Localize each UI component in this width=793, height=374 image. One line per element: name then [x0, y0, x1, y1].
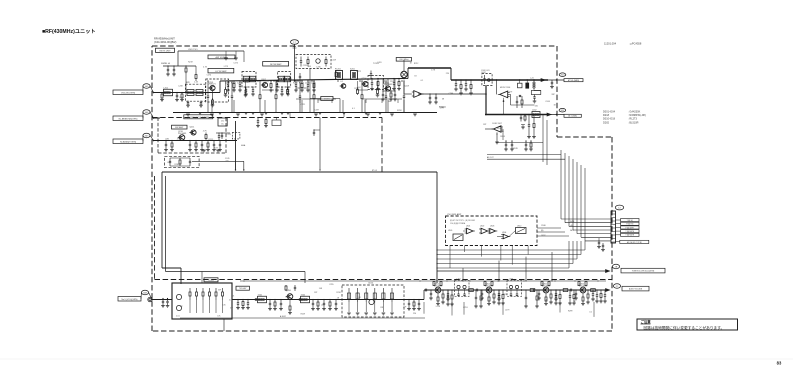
svg-text:AF OUT: AF OUT	[487, 156, 494, 159]
svg-text:L222: L222	[227, 134, 231, 136]
svg-text:100: 100	[388, 101, 391, 103]
svg-text:L456: L456	[509, 279, 513, 281]
svg-text:No.AB(B)(Y/GRN): No.AB(B)(Y/GRN)	[120, 140, 136, 143]
svg-text:C266: C266	[499, 131, 504, 133]
svg-text:CN6-330 (GRN): CN6-330 (GRN)	[121, 92, 136, 94]
svg-text:L454: L454	[457, 279, 461, 281]
svg-text:R219: R219	[188, 61, 193, 63]
svg-text:C253: C253	[463, 307, 468, 309]
svg-text:SW8B +B: SW8B +B	[161, 63, 171, 65]
svg-text:回路は技術開発に伴い変更することがあります。: 回路は技術開発に伴い変更することがあります。	[644, 325, 725, 330]
svg-text:MIC AMP: MIC AMP	[175, 126, 184, 129]
svg-text:T (B) MUTE: T (B) MUTE	[626, 235, 634, 237]
svg-text:R231: R231	[503, 294, 508, 296]
svg-text:AT 2 (SUB): AT 2 (SUB)	[568, 115, 577, 118]
svg-text:U501: U501	[466, 226, 470, 228]
svg-text:C286: C286	[264, 80, 269, 82]
svg-text:2SC4081: 2SC4081	[178, 133, 187, 135]
svg-text:: μPC4558: : μPC4558	[629, 42, 642, 46]
svg-text:D001~D04: D001~D04	[603, 111, 616, 114]
svg-text:0.01: 0.01	[167, 162, 171, 164]
svg-text:2SK571: 2SK571	[209, 84, 217, 86]
svg-text:C295: C295	[329, 284, 334, 286]
svg-text:No.AB/ANT(B)(GRN): No.AB/ANT(B)(GRN)	[119, 117, 138, 120]
svg-text:RX/TX UNIT: RX/TX UNIT	[159, 50, 171, 52]
svg-text:P (B) SHIFT: P (B) SHIFT	[625, 227, 634, 229]
svg-text:R217: R217	[354, 88, 359, 90]
svg-text:D218: D218	[603, 114, 610, 117]
svg-text:0.1: 0.1	[589, 311, 592, 313]
svg-text:11201,004: 11201,004	[604, 42, 617, 46]
svg-text:R252: R252	[209, 139, 214, 141]
svg-text:Q219: Q219	[404, 85, 409, 87]
svg-text:R290: R290	[244, 82, 249, 84]
svg-text:220: 220	[321, 305, 324, 307]
svg-text:No.5 (VOL)(GRN): No.5 (VOL)(GRN)	[122, 299, 138, 301]
svg-text:U505: U505	[448, 230, 452, 232]
svg-text:L201 6T 0.5: L201 6T 0.5	[188, 49, 198, 51]
svg-text:R210: R210	[336, 292, 341, 294]
svg-text:(8)A-3TX L(0) TX L(0)(MAIN): (8)A-3TX L(0) TX L(0)(MAIN)	[187, 116, 209, 119]
svg-text:2SC4081: 2SC4081	[384, 84, 393, 86]
svg-text:R272: R272	[356, 71, 361, 73]
svg-text:0.1: 0.1	[421, 80, 424, 82]
svg-text:0.01: 0.01	[176, 316, 180, 318]
svg-text:L47 BC AMP: L47 BC AMP	[215, 70, 227, 73]
svg-text:L261: L261	[377, 62, 381, 64]
svg-text:U502: U502	[480, 226, 484, 228]
svg-text:0.1: 0.1	[340, 81, 343, 83]
svg-text:0.1: 0.1	[352, 108, 355, 110]
svg-text:C275: C275	[233, 62, 238, 64]
svg-text:R212: R212	[414, 63, 419, 65]
svg-text:: GA4230K: : GA4230K	[628, 111, 641, 114]
svg-text:C287: C287	[314, 109, 319, 111]
svg-text:C229: C229	[331, 59, 336, 61]
svg-text:IC201: IC201	[208, 280, 213, 282]
svg-text:T (B) MUTE: T (B) MUTE	[626, 231, 634, 233]
svg-text:C279: C279	[508, 91, 513, 93]
svg-text:U503: U503	[490, 226, 494, 228]
svg-text:220: 220	[535, 106, 538, 108]
svg-text:L273: L273	[224, 66, 228, 68]
svg-text:RF(430MHz)UNIT: RF(430MHz)UNIT	[154, 37, 175, 41]
svg-text:: BL510R: : BL510R	[628, 121, 639, 124]
svg-text:L212: L212	[165, 91, 169, 93]
svg-text:C274: C274	[207, 74, 212, 76]
svg-text:U504: U504	[502, 232, 506, 234]
svg-text:A.3062: A.3062	[280, 315, 286, 318]
svg-text:C240: C240	[200, 93, 205, 95]
svg-text:TONE/VOL (VW 010-0)(GYM): TONE/VOL (VW 010-0)(GYM)	[632, 271, 655, 273]
svg-text:SWB: SWB	[570, 221, 575, 223]
svg-text:220: 220	[286, 297, 289, 299]
svg-text:ご注意: ご注意	[641, 319, 652, 324]
svg-text:T (B) SQ: T (B) SQ	[627, 220, 634, 222]
svg-text:L281: L281	[165, 138, 169, 140]
svg-text:68: 68	[545, 300, 547, 302]
svg-text:8T 0.5: 8T 0.5	[372, 170, 377, 172]
svg-text:R291: R291	[469, 290, 474, 292]
svg-text:AT 501 (MAIN): AT 501 (MAIN)	[568, 79, 580, 82]
svg-text:R248: R248	[500, 136, 505, 138]
svg-text:(B): (B)	[541, 230, 544, 232]
svg-text:L208: L208	[178, 85, 182, 87]
svg-text:MC/SC 5534: MC/SC 5534	[500, 87, 510, 89]
svg-text:D282: D282	[603, 121, 610, 124]
svg-text:(X44-3062-00)(B/2): (X44-3062-00)(B/2)	[154, 40, 176, 44]
svg-text:U510: U510	[517, 226, 521, 228]
svg-text:220: 220	[225, 160, 228, 162]
svg-text:TK10487: TK10487	[239, 288, 246, 290]
svg-text:C239: C239	[303, 65, 308, 67]
svg-text:C221: C221	[301, 104, 306, 106]
svg-text:R271: R271	[214, 148, 219, 150]
svg-text:C244: C244	[545, 101, 550, 103]
svg-text:D010~D18: D010~D18	[603, 118, 616, 121]
svg-text:R242: R242	[497, 128, 502, 130]
svg-text:CL/MC 5417: CL/MC 5417	[492, 123, 502, 125]
svg-text:R231: R231	[179, 97, 184, 99]
svg-text:: RL2T3: : RL2T3	[628, 118, 638, 121]
svg-text:R285: R285	[175, 164, 180, 166]
svg-text:AF(470): AF(470)	[439, 106, 446, 109]
svg-text:83: 83	[777, 361, 782, 366]
svg-text:P (B) TX8: P (B) TX8	[626, 224, 633, 226]
svg-text:220: 220	[390, 81, 393, 83]
svg-text:C50 (B)(B) 8T/3B3A: C50 (B)(B) 8T/3B3A	[450, 222, 466, 225]
svg-text:■RF(430MHz)ユニット: ■RF(430MHz)ユニット	[42, 28, 96, 35]
svg-text:L228: L228	[436, 306, 440, 308]
svg-text:: NO88P31(-98): : NO88P31(-98)	[628, 114, 646, 117]
svg-text:DET AY AMP: DET AY AMP	[270, 63, 282, 66]
svg-text:220: 220	[413, 313, 416, 315]
svg-text:220: 220	[446, 73, 449, 75]
svg-text:R259: R259	[301, 314, 306, 316]
svg-text:R299: R299	[568, 310, 573, 312]
svg-text:CD14: CD14	[368, 283, 374, 285]
svg-text:68: 68	[358, 297, 360, 299]
svg-text:DC/DC: DC/DC	[324, 99, 330, 101]
svg-text:FL201: FL201	[335, 69, 342, 71]
svg-text:L235: L235	[316, 66, 320, 68]
svg-text:68: 68	[442, 99, 444, 101]
svg-text:R249: R249	[513, 148, 518, 150]
svg-text:R298: R298	[397, 110, 402, 112]
svg-text:C50 (B/N) AMP: C50 (B/N) AMP	[447, 213, 462, 216]
svg-text:L-41: L-41	[530, 78, 534, 80]
svg-text:C245: C245	[225, 158, 230, 160]
svg-text:L279: L279	[505, 310, 509, 312]
svg-text:AUDIO VOL AGB: AUDIO VOL AGB	[629, 288, 643, 291]
svg-text:2C: 2C	[616, 286, 619, 288]
